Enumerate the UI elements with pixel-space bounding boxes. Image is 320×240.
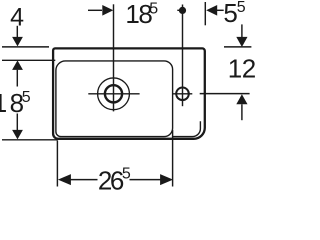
svg-text:2: 2 (242, 54, 256, 84)
svg-text:5: 5 (237, 0, 246, 16)
svg-text:4: 4 (10, 3, 24, 31)
svg-text:5: 5 (223, 0, 237, 28)
svg-text:1: 1 (228, 54, 242, 84)
svg-text:5: 5 (122, 166, 131, 183)
svg-text:5: 5 (22, 89, 31, 106)
svg-text:5: 5 (149, 0, 158, 17)
svg-text:1: 1 (0, 88, 7, 118)
